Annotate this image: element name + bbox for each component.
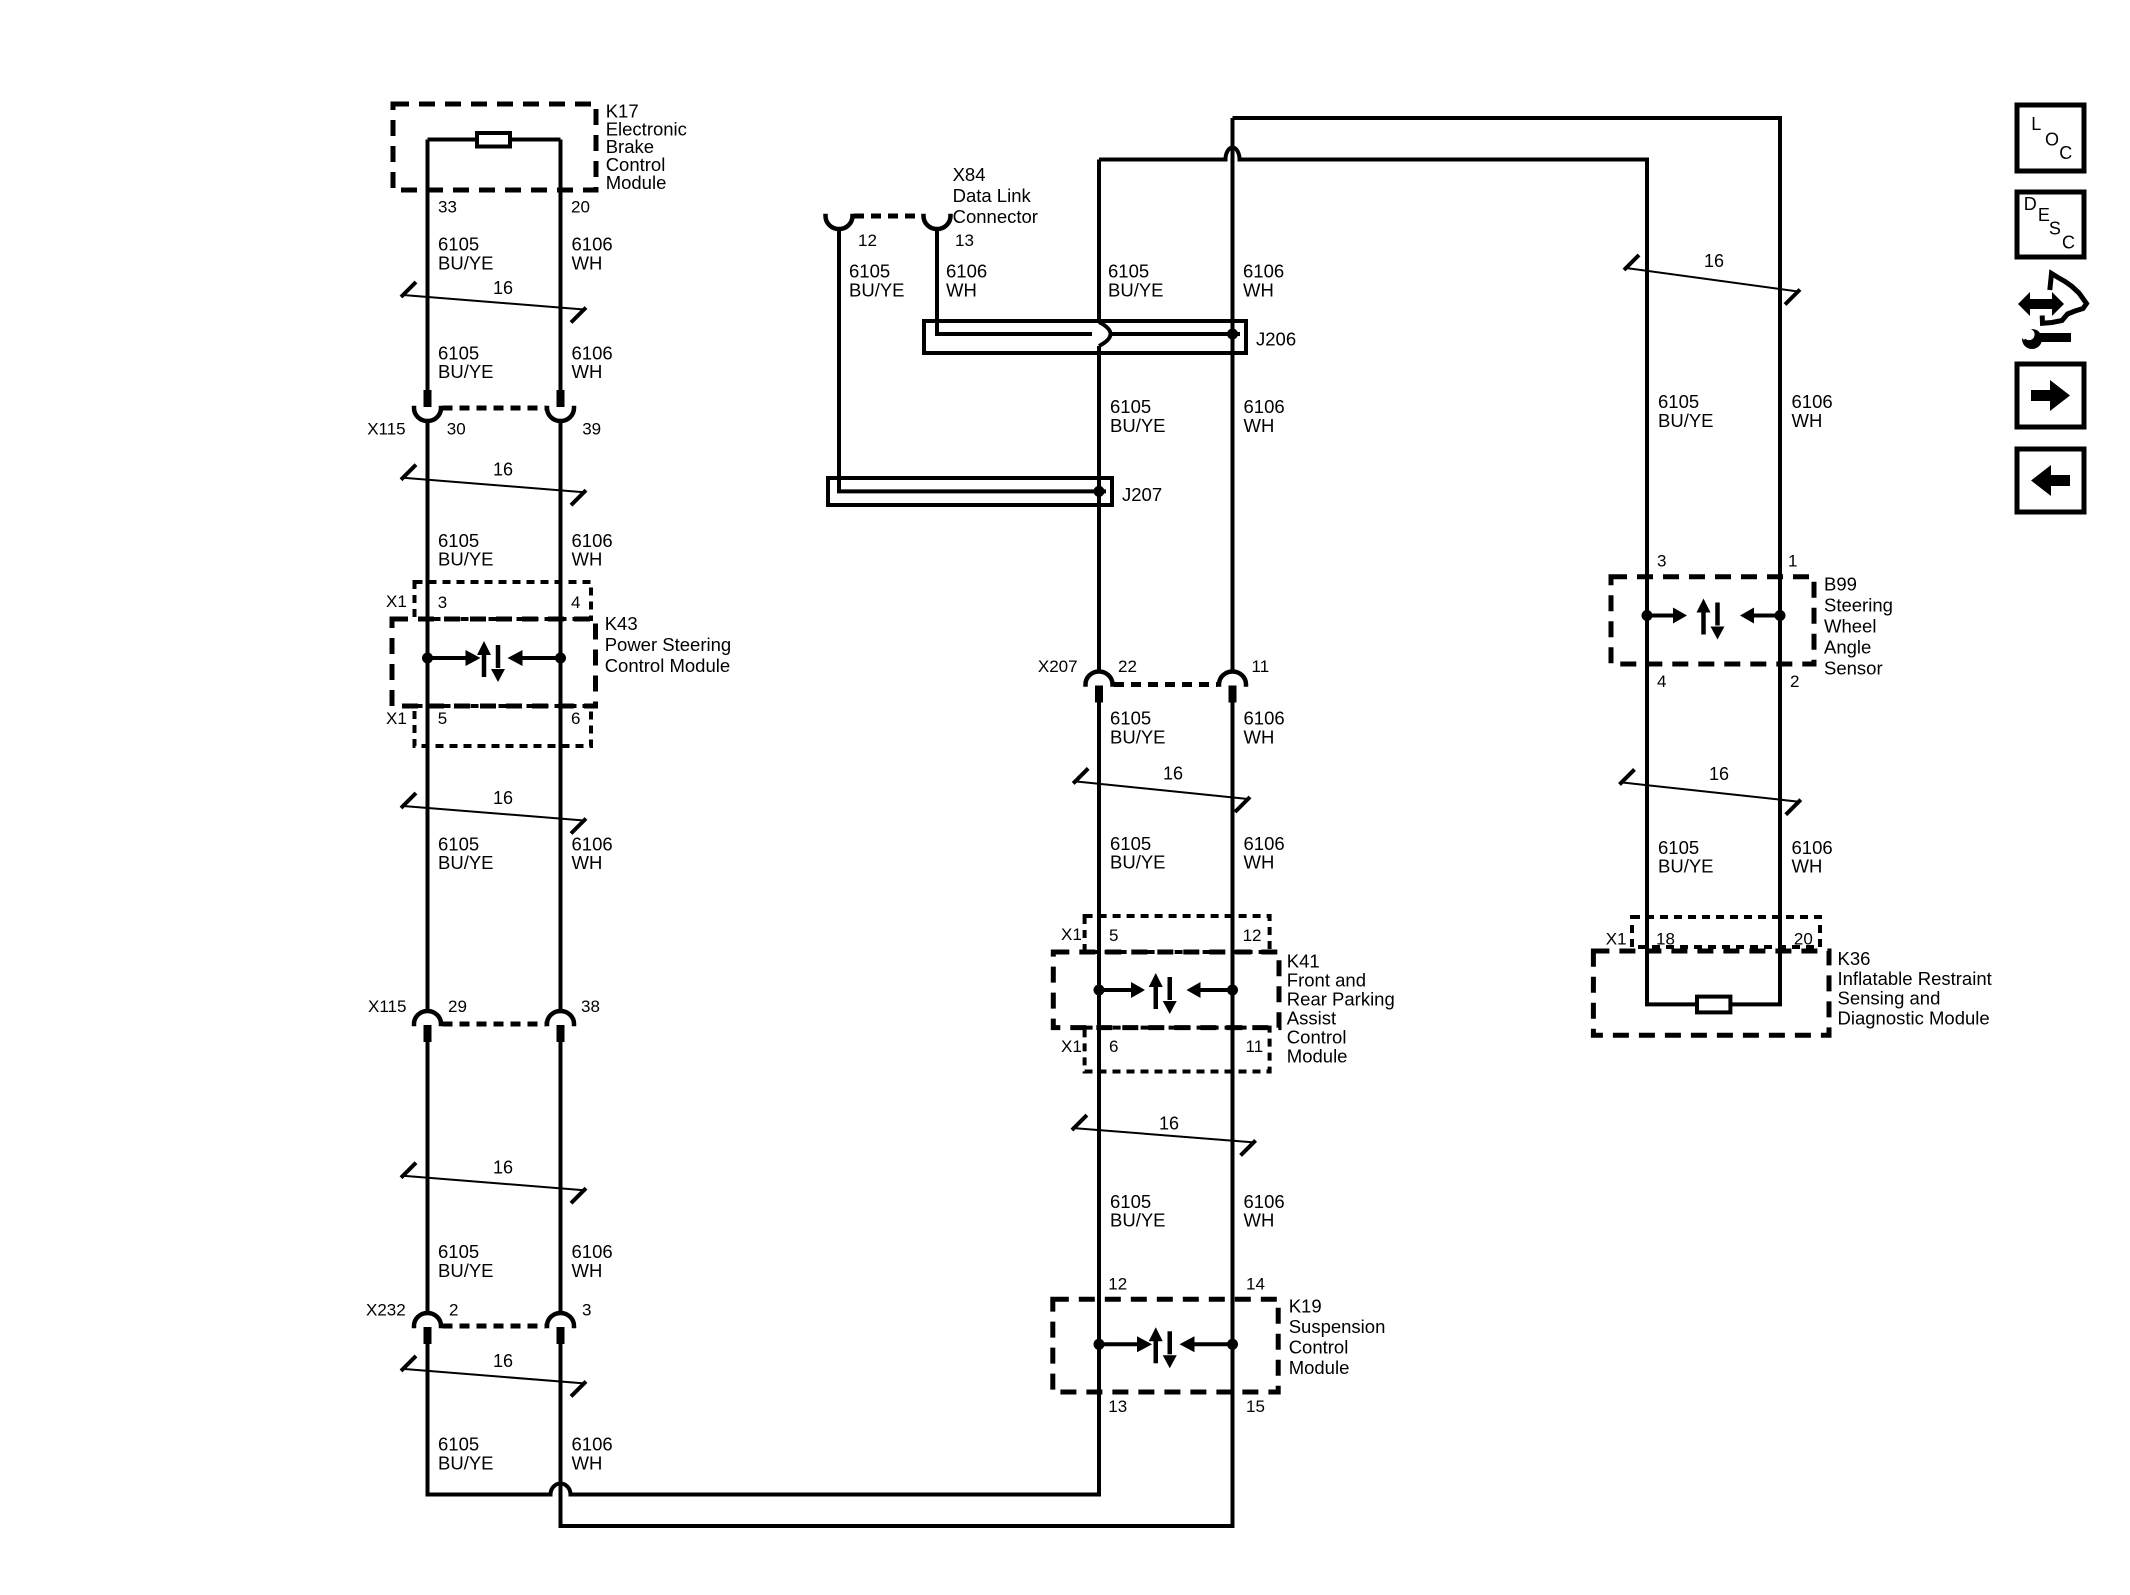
wire 6105 vertical top to J206 hop <box>1097 160 1101 323</box>
svg-text:BU/YE: BU/YE <box>438 852 494 873</box>
svg-text:J207: J207 <box>1122 484 1162 505</box>
svg-text:WH: WH <box>1244 1210 1275 1231</box>
svg-text:K43: K43 <box>605 613 638 634</box>
svg-text:O: O <box>2045 130 2059 150</box>
wire gauge 16 marker (left 2) <box>403 478 584 493</box>
svg-text:X1: X1 <box>1061 925 1082 944</box>
connector X1 of K43 (bottom dotted box) <box>415 706 592 746</box>
svg-text:S: S <box>2049 218 2061 238</box>
svg-text:16: 16 <box>493 788 513 808</box>
svg-text:BU/YE: BU/YE <box>849 279 905 300</box>
svg-text:Steering: Steering <box>1824 594 1893 615</box>
icon wrench <box>2022 329 2042 349</box>
svg-text:X84: X84 <box>953 164 986 185</box>
svg-text:BU/YE: BU/YE <box>438 1260 494 1281</box>
svg-text:13: 13 <box>955 231 974 250</box>
svg-text:Suspension: Suspension <box>1289 1316 1386 1337</box>
svg-text:Data Link: Data Link <box>953 185 1032 206</box>
wire 6105 K17 pin33 down to X115 <box>426 140 430 393</box>
connector X232 pin 2 terminal <box>414 1313 441 1326</box>
svg-text:5: 5 <box>438 709 447 728</box>
svg-text:12: 12 <box>858 231 877 250</box>
wire 6106 X84-13 down to J206 bus <box>937 229 1092 334</box>
wire gauge 16 marker (right 2) <box>1622 782 1799 801</box>
svg-text:20: 20 <box>571 198 590 217</box>
svg-text:BU/YE: BU/YE <box>438 252 494 273</box>
module K19 Suspension Control Module (dashed box) <box>1053 1299 1278 1392</box>
icon back arrow <box>2031 465 2070 496</box>
svg-text:20: 20 <box>1794 930 1813 949</box>
connector X115 pin 38 terminal <box>547 1011 574 1024</box>
connector X115 pin 39 terminal <box>557 390 565 407</box>
svg-text:D: D <box>2024 194 2037 214</box>
svg-text:WH: WH <box>1244 852 1275 873</box>
svg-text:15: 15 <box>1246 1397 1265 1416</box>
svg-text:BU/YE: BU/YE <box>1110 852 1166 873</box>
splice J207 box <box>828 478 1112 505</box>
svg-text:Angle: Angle <box>1824 637 1871 658</box>
icon connector-repair outline <box>2042 274 2086 324</box>
svg-text:BU/YE: BU/YE <box>1110 1210 1166 1231</box>
top wire 6106 horizontal, down right column to K36 resistor <box>1233 118 1781 1004</box>
module K17 Electronic Brake Control Module (dashed box) <box>393 104 596 190</box>
splice J206 box <box>924 321 1246 353</box>
svg-text:BU/YE: BU/YE <box>438 1452 494 1473</box>
connector X84 pin 12 terminal <box>826 216 853 229</box>
svg-text:WH: WH <box>1792 410 1823 431</box>
module K43 Power Steering Control Module (dashed box) <box>392 619 596 706</box>
connector X115 pins 29/38 dashed line <box>443 1022 546 1027</box>
svg-text:16: 16 <box>1704 251 1724 271</box>
svg-text:13: 13 <box>1108 1397 1127 1416</box>
svg-text:16: 16 <box>493 1158 513 1178</box>
svg-text:5: 5 <box>1109 926 1118 945</box>
wire 6105 X115-29 to X232 <box>426 1041 430 1314</box>
svg-text:22: 22 <box>1118 657 1137 676</box>
svg-text:Inflatable Restraint: Inflatable Restraint <box>1838 968 1992 989</box>
connector X115 pins 30/39 dashed line <box>443 406 546 411</box>
svg-text:X1: X1 <box>1061 1037 1082 1056</box>
connector X84 pin 13 terminal <box>924 216 951 229</box>
svg-text:BU/YE: BU/YE <box>438 549 494 570</box>
svg-text:16: 16 <box>1163 763 1183 783</box>
wire 6105 hop through J206 <box>1099 322 1111 346</box>
svg-text:Wheel: Wheel <box>1824 616 1876 637</box>
svg-text:K19: K19 <box>1289 1296 1322 1317</box>
resistor inside K17 <box>477 133 510 147</box>
icon DESC box <box>2017 192 2084 257</box>
svg-text:X115: X115 <box>367 419 405 438</box>
svg-text:BU/YE: BU/YE <box>1658 856 1714 877</box>
svg-text:Module: Module <box>606 172 667 193</box>
svg-text:J206: J206 <box>1256 329 1296 350</box>
wire gauge 16 marker (mid 1) <box>1075 781 1248 799</box>
junction dot J207 on 6105 <box>1094 486 1105 497</box>
svg-text:B99: B99 <box>1824 573 1857 594</box>
svg-text:Control Module: Control Module <box>605 655 730 676</box>
svg-text:WH: WH <box>1244 415 1275 436</box>
icon back arrow box <box>2017 449 2084 512</box>
svg-text:WH: WH <box>1243 279 1274 300</box>
svg-text:12: 12 <box>1108 1275 1127 1294</box>
svg-text:X115: X115 <box>368 997 406 1016</box>
wire 6105 X115 to K43 <box>426 420 430 1012</box>
svg-text:11: 11 <box>1252 657 1270 676</box>
svg-text:Front and: Front and <box>1287 970 1366 991</box>
connector X84 Data Link Connector dashed line <box>854 214 922 219</box>
svg-text:39: 39 <box>582 419 601 438</box>
svg-text:30: 30 <box>447 419 466 438</box>
top wire 6105 horizontal with hop over 6106, down right column to K36 resistor <box>1099 148 1697 1005</box>
svg-text:WH: WH <box>1244 726 1275 747</box>
svg-text:BU/YE: BU/YE <box>1110 726 1166 747</box>
wire 6105 J207 to X207 <box>1097 491 1101 672</box>
svg-text:18: 18 <box>1656 930 1675 949</box>
icon forward arrow <box>2031 380 2070 411</box>
svg-text:X1: X1 <box>386 709 407 728</box>
connector X1 of K36 (dotted box) <box>1632 917 1820 947</box>
svg-text:2: 2 <box>1790 672 1799 691</box>
svg-text:L: L <box>2031 114 2041 134</box>
wire 6106 X207 to K41/K19 <box>1231 701 1235 1392</box>
wire gauge 16 marker (mid 2) <box>1074 1128 1254 1142</box>
svg-text:38: 38 <box>581 997 600 1016</box>
svg-text:BU/YE: BU/YE <box>1108 279 1164 300</box>
K43 internal node symbols <box>422 653 433 664</box>
svg-text:4: 4 <box>571 593 580 612</box>
connector X207 pin 11 terminal <box>1219 672 1246 685</box>
svg-text:Control: Control <box>1287 1027 1347 1048</box>
splice J206 bus right segment <box>1110 332 1240 336</box>
svg-text:16: 16 <box>1709 764 1729 784</box>
connector X232 pin 3 terminal <box>547 1313 574 1326</box>
svg-text:11: 11 <box>1246 1037 1264 1056</box>
svg-text:WH: WH <box>572 1260 603 1281</box>
module K41 Front and Rear Parking Assist Control Module (dashed box) <box>1053 952 1279 1028</box>
svg-text:Assist: Assist <box>1287 1008 1336 1029</box>
svg-text:Diagnostic Module: Diagnostic Module <box>1838 1007 1990 1028</box>
connector X1 of K41 (bottom dotted box) <box>1085 1028 1270 1072</box>
svg-text:3: 3 <box>438 593 447 612</box>
wire gauge 16 marker (left 5) <box>403 1369 584 1384</box>
junction dot J206 on 6106 <box>1227 329 1238 340</box>
wire 6106 K17 pin20 down to X115 <box>559 140 563 393</box>
svg-text:33: 33 <box>438 198 457 217</box>
svg-text:16: 16 <box>493 278 513 298</box>
svg-text:16: 16 <box>493 1351 513 1371</box>
svg-text:Power Steering: Power Steering <box>605 634 731 655</box>
svg-text:K41: K41 <box>1287 951 1320 972</box>
connector X232 dashed line <box>443 1324 546 1329</box>
svg-text:WH: WH <box>946 279 977 300</box>
svg-text:6: 6 <box>1109 1037 1118 1056</box>
svg-text:WH: WH <box>572 1452 603 1473</box>
svg-text:WH: WH <box>572 549 603 570</box>
svg-text:3: 3 <box>1657 552 1666 571</box>
icon LOC box <box>2017 105 2084 171</box>
wire gauge 16 marker (left 4) <box>403 1176 584 1191</box>
svg-text:Module: Module <box>1289 1357 1350 1378</box>
connector X115 pin 30 terminal <box>424 390 432 407</box>
svg-text:Connector: Connector <box>953 206 1038 227</box>
K19 internal node symbols <box>1094 1339 1105 1350</box>
svg-text:Sensing and: Sensing and <box>1838 988 1941 1009</box>
svg-text:14: 14 <box>1246 1275 1265 1294</box>
svg-text:2: 2 <box>449 1301 458 1320</box>
wire 6106 X115-38 to X232 <box>559 1041 563 1314</box>
svg-text:BU/YE: BU/YE <box>438 361 494 382</box>
module B99 Steering Wheel Angle Sensor (dashed box) <box>1611 577 1814 664</box>
svg-text:Control: Control <box>1289 1336 1349 1357</box>
svg-text:16: 16 <box>493 460 513 480</box>
svg-text:K36: K36 <box>1838 948 1871 969</box>
wire gauge 16 marker (right 1) <box>1626 268 1798 292</box>
svg-text:X1: X1 <box>1606 930 1627 949</box>
svg-text:X232: X232 <box>366 1301 406 1320</box>
module K36 Inflatable Restraint Sensing and Diagnostic Module (dashed box) <box>1593 951 1829 1035</box>
connector X1 of K43 (top dotted box) <box>415 582 592 619</box>
svg-text:1: 1 <box>1788 552 1797 571</box>
connector X207 pin 22 terminal <box>1086 672 1113 685</box>
svg-text:Module: Module <box>1287 1046 1348 1067</box>
wire gauge 16 marker (left 3) <box>403 806 584 821</box>
svg-text:C: C <box>2059 143 2072 163</box>
wire 6105 K17 internal horizontal <box>428 138 478 142</box>
svg-text:C: C <box>2062 233 2075 253</box>
svg-text:Rear Parking: Rear Parking <box>1287 989 1395 1010</box>
svg-text:29: 29 <box>448 997 467 1016</box>
B99 internal node symbols <box>1642 610 1653 621</box>
svg-text:6: 6 <box>571 709 580 728</box>
connector X1 of K41 (top dotted box) <box>1085 916 1270 952</box>
wire 6105 X207 to K41/K19 <box>1097 701 1101 1392</box>
icon connector-repair double arrow <box>2018 292 2064 316</box>
svg-text:BU/YE: BU/YE <box>1110 415 1166 436</box>
svg-text:12: 12 <box>1243 926 1262 945</box>
wire 6105 J206 to J207 <box>1097 346 1101 491</box>
wire 6106 X115 to K43 area <box>559 420 563 1012</box>
svg-text:WH: WH <box>1792 856 1823 877</box>
K41 internal node symbols <box>1094 985 1105 996</box>
wire 6105 X84-12 down to J207 <box>839 229 1106 491</box>
wire 6106 K17 internal horizontal <box>510 138 561 142</box>
svg-text:4: 4 <box>1657 672 1666 691</box>
wire 6105 bottom run X232 to K19 (with hop over 6106) <box>428 1343 1100 1495</box>
resistor inside K36 <box>1697 997 1730 1013</box>
wire 6106 bottom run X232 to K19 <box>561 1343 1233 1526</box>
connector X115 pin 29 terminal <box>414 1011 441 1024</box>
wire 6106 vertical top to X207 <box>1231 118 1235 672</box>
svg-text:X207: X207 <box>1038 657 1078 676</box>
svg-text:X1: X1 <box>386 592 407 611</box>
svg-text:WH: WH <box>572 852 603 873</box>
icon forward arrow box <box>2017 364 2084 427</box>
svg-text:BU/YE: BU/YE <box>1658 410 1714 431</box>
svg-text:16: 16 <box>1159 1114 1179 1134</box>
wire gauge 16 marker (left 1) <box>403 295 584 310</box>
svg-text:3: 3 <box>582 1301 591 1320</box>
svg-text:WH: WH <box>572 361 603 382</box>
connector X207 dashed line <box>1114 682 1218 687</box>
svg-text:WH: WH <box>572 252 603 273</box>
svg-text:Sensor: Sensor <box>1824 658 1883 679</box>
